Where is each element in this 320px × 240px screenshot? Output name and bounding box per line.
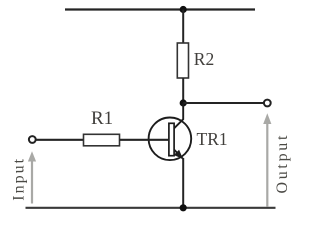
wire: emitter to bottom rail [182,158,184,208]
svg-text:TR1: TR1 [197,129,228,149]
terminal: input (open circle) [29,136,36,143]
resistor R1 [84,134,120,146]
transistor TR1: envelope circle [149,118,192,161]
svg-text:Input: Input [11,157,28,201]
svg-text:Output: Output [274,133,291,194]
node: bottom rail junction [180,204,187,211]
arrow: output signal (gray, pointing up) [263,113,271,206]
svg-text:R1: R1 [91,108,113,129]
wire: R2 bottom lead [182,78,184,103]
transistor TR1: base bar [169,123,174,155]
transistor TR1: emitter arrow head [174,150,183,159]
wire: R1 to transistor base [120,139,169,141]
arrow: input signal (gray, pointing up) [28,151,36,203]
terminal: output (open circle) [264,100,271,107]
wire: input terminal to R1 [36,139,84,141]
wire: bottom rail [26,207,276,209]
transistor TR1: emitter lead [174,150,183,159]
node: top rail junction [180,6,187,13]
svg-text:R2: R2 [194,49,214,69]
wire: top supply rail [65,8,255,10]
wire: collector lead into transistor [174,103,183,128]
node: collector junction [180,99,187,106]
resistor R2 [177,43,188,78]
wire: collector to output terminal [183,102,263,104]
wire: R2 top lead [182,10,184,45]
